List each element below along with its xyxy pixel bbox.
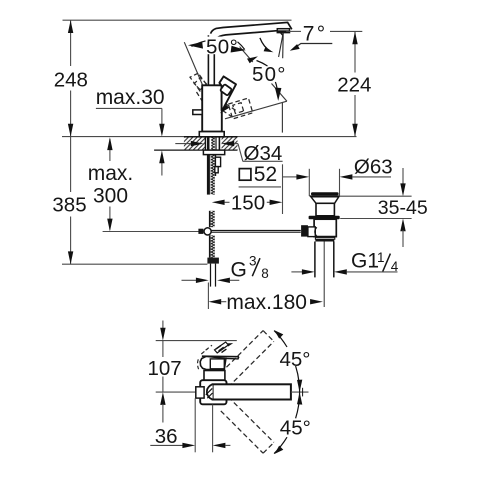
- rod ball joint: [198, 229, 203, 234]
- dimension max.180: [207, 283, 209, 310]
- shank below washer: [207, 155, 210, 195]
- dashed handle left position: [190, 73, 210, 101]
- drain flange: [311, 197, 339, 204]
- lever plan dashed curls: [198, 345, 212, 369]
- svg-text:45°: 45°: [280, 348, 311, 371]
- svg-text:45°: 45°: [280, 417, 311, 440]
- svg-text:1: 1: [377, 250, 385, 265]
- wire deck reference line right: [238, 136, 357, 138]
- dimension G1 1/4 arrows: [291, 271, 303, 273]
- svg-text:G1: G1: [351, 250, 379, 273]
- svg-text:35-45: 35-45: [378, 197, 428, 219]
- supply hose: [210, 264, 212, 287]
- countertop hatch right: [222, 137, 238, 149]
- 50deg #2 arc segments + arrowheads: [257, 61, 268, 67]
- 50deg #1 arc arrowheads: [188, 42, 203, 49]
- 107 top reference line: [156, 340, 237, 342]
- left tab plan: [196, 387, 204, 398]
- svg-text:107: 107: [147, 357, 181, 380]
- escutcheon plan: [200, 380, 226, 404]
- label square52: [239, 169, 251, 181]
- svg-text:36: 36: [155, 425, 178, 448]
- spout pivot arc: [207, 384, 213, 399]
- svg-text:52: 52: [254, 163, 277, 186]
- spout centerline right: [291, 391, 309, 393]
- tailpipe centerline: [323, 242, 325, 308]
- svg-text:385: 385: [52, 194, 86, 217]
- dimension hose diameter: [182, 279, 198, 281]
- pull rod thread segment: [209, 211, 210, 227]
- svg-text:7: 7: [303, 23, 315, 46]
- svg-text:3: 3: [249, 254, 257, 269]
- G3/8 nut: [207, 258, 219, 264]
- faucet neck: [207, 35, 209, 85]
- 50deg right angle line (gapped at text): [239, 46, 253, 62]
- svg-text:max.180: max.180: [226, 291, 307, 314]
- dimension max.300 vertical: [109, 139, 111, 230]
- 50deg #1 arc stubs: [192, 41, 206, 47]
- drain seal ring: [309, 216, 340, 219]
- vertical extension from spout tip: [281, 103, 283, 133]
- pop-up rod: [211, 229, 301, 231]
- svg-text:50°: 50°: [206, 35, 238, 58]
- dimension Ø34 arrows at shank: [175, 143, 191, 145]
- drain neck: [316, 203, 334, 216]
- deck lines at drain 35-45: [340, 195, 412, 197]
- drain plug cap: [311, 192, 339, 195]
- svg-text:50°: 50°: [252, 63, 287, 86]
- countertop hatch left: [184, 137, 205, 149]
- dashed spout +45: [221, 331, 274, 388]
- countertop bottom line: [154, 149, 237, 151]
- base flange: [199, 132, 224, 137]
- svg-text:300: 300: [93, 185, 128, 208]
- svg-text:150: 150: [231, 191, 265, 214]
- lever plan body: [200, 356, 226, 369]
- spout plan: [213, 384, 291, 399]
- 50deg left angle line: [184, 42, 203, 86]
- faucet front: spout: [211, 22, 292, 33]
- svg-text:G: G: [231, 259, 247, 282]
- wire deck reference line left: [62, 136, 184, 138]
- dashed handle right position: [223, 98, 253, 119]
- drain Ø63 extension lines: [308, 169, 310, 196]
- 107 bottom reference line: [156, 391, 196, 393]
- mounting washer: [203, 150, 224, 155]
- svg-text:224: 224: [337, 74, 371, 97]
- handle lever solid: [219, 76, 236, 110]
- dimension 224 vertical: [354, 31, 356, 72]
- countertop surface thick segment: [184, 136, 238, 138]
- 7 degree leader arrow: [296, 44, 333, 48]
- dimension 35-45: [402, 168, 404, 185]
- 45deg arcs upper: [274, 331, 287, 347]
- dimension 107: [162, 321, 164, 330]
- dashed spout -45: [221, 397, 274, 453]
- cartridge plan: [204, 371, 225, 382]
- tailpipe: [314, 242, 316, 278]
- svg-text:8: 8: [261, 266, 269, 281]
- svg-text:°: °: [317, 23, 325, 46]
- arrow toward pivot: [220, 105, 229, 114]
- dimension 36: [194, 398, 196, 452]
- svg-text:max.: max.: [88, 162, 134, 185]
- wire rod reference line y=231.5: [103, 231, 199, 233]
- dimension 150: [282, 164, 284, 214]
- rod socket: [301, 225, 308, 236]
- 7 degree reference lines: [282, 33, 285, 59]
- wire hose-end reference line y=264: [62, 263, 207, 265]
- lever tip hatched section: [215, 342, 229, 353]
- 45deg arcs lower: [274, 437, 287, 453]
- check valve fittings: [215, 157, 220, 166]
- handle axis line (right, tilted): [225, 101, 287, 119]
- svg-text:Ø63: Ø63: [354, 155, 393, 178]
- svg-text:248: 248: [54, 69, 88, 92]
- drain bottom rings: [315, 237, 334, 239]
- faucet body: [202, 85, 222, 131]
- drain body: [314, 219, 336, 236]
- dimension Ø63: [283, 176, 298, 178]
- dimension 248/385 vertical line: [70, 20, 72, 264]
- 7 degree arc with arrowhead: [260, 38, 271, 51]
- temperature stop tab: [193, 110, 202, 115]
- 50deg labels overlay: [204, 37, 240, 55]
- svg-text:max.30: max.30: [96, 86, 165, 109]
- wire top reference line y=20: [63, 19, 292, 21]
- aerator at spout end: [277, 29, 289, 33]
- shank through countertop: [204, 137, 206, 150]
- supply thread nipple: [209, 235, 210, 257]
